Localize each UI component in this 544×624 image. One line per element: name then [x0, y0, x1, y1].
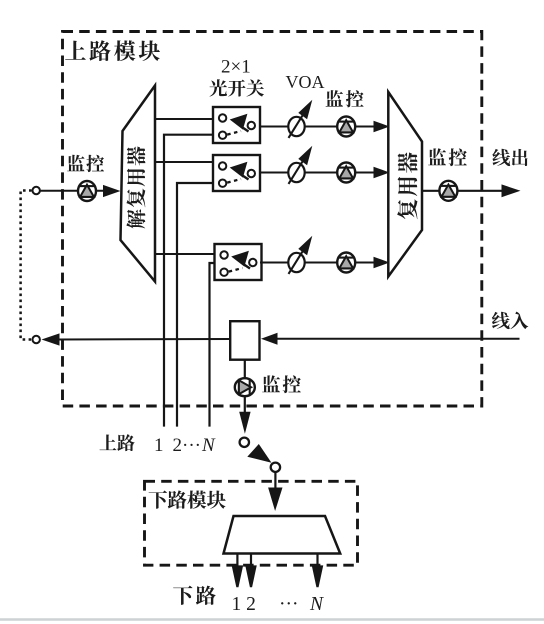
arrow into drop demux: [268, 488, 282, 512]
label 线入: [492, 312, 528, 329]
arrow into multiplexer row 3: [374, 257, 390, 269]
svg-text:2×1: 2×1: [221, 57, 251, 78]
drop module dashed border 下路模块: [145, 481, 358, 565]
optical switch S3 (2x1): [215, 244, 262, 280]
svg-text:N: N: [201, 435, 216, 456]
wire: tap box to left arrow: [59, 338, 230, 341]
arrow into demultiplexer: [103, 185, 121, 197]
optical switch S1 (2x1): [213, 107, 260, 143]
bottom page rule: [0, 618, 544, 621]
drop output arrow 2: [247, 554, 256, 588]
optical switch S2 (2x1): [213, 155, 260, 191]
svg-text:···: ···: [182, 435, 201, 456]
wire: demux out chN to switch3: [155, 253, 215, 255]
node: lower loop connector circle: [33, 336, 40, 343]
label 上路: [100, 434, 135, 451]
arrow into tap box: [261, 333, 278, 345]
tap box (drop coupler): [230, 321, 259, 360]
wire: line in from right: [275, 338, 520, 340]
arrow down to connector: [239, 412, 250, 434]
label 复用器 (vertical): [397, 152, 417, 219]
drop demultiplexer trapezoid: [224, 516, 341, 554]
monitor tap row 2: [337, 163, 355, 183]
wire: connector 2 down into drop demux: [274, 472, 276, 490]
svg-text:2: 2: [173, 435, 183, 456]
wire: switch2 output to multiplexer: [260, 172, 376, 174]
arrow line out: [502, 184, 521, 197]
VOA attenuator A1: [288, 100, 312, 138]
arrow: patch between connectors: [247, 444, 271, 463]
svg-text:···: ···: [279, 594, 298, 615]
label 监控 row1: [326, 90, 364, 107]
arrow to loop circle: [42, 333, 60, 345]
monitor tap row 3: [337, 253, 355, 273]
wire: input to demultiplexer: [41, 190, 106, 192]
wire: switch3 output to multiplexer: [260, 262, 376, 264]
node: upper loop connector circle: [33, 187, 40, 194]
add module dashed border 上路模块: [63, 32, 482, 407]
label 下路模块: [149, 490, 226, 508]
label 监控 line out: [428, 148, 467, 166]
wire: mux output line out: [422, 190, 504, 192]
monitor tap at line out: [439, 181, 457, 201]
label 下路: [173, 586, 216, 605]
wire: dotted loopback left: [21, 191, 32, 340]
drop output arrow 1: [233, 554, 242, 588]
wire: switch1 output to multiplexer: [260, 126, 376, 128]
VOA attenuator A3: [288, 236, 312, 274]
label 线出: [492, 149, 527, 166]
label 光开关: [209, 79, 263, 96]
svg-text:1 2: 1 2: [232, 594, 256, 615]
wire: demux out ch2 to switch2: [155, 161, 213, 163]
wire: add channel 2: [177, 183, 213, 427]
arrow into multiplexer row 1: [374, 121, 390, 133]
node: drop connector circle 2: [271, 463, 280, 472]
wire: demux out ch1 to switch1: [155, 118, 213, 120]
wire: add channel 1: [164, 135, 213, 427]
monitor tap drop: [235, 378, 255, 396]
label 上路模块: [65, 40, 160, 61]
VOA attenuator A2: [288, 146, 312, 184]
wire: tap box down to monitor: [244, 360, 246, 413]
label 解复用器 (vertical): [126, 146, 145, 228]
svg-text:N: N: [309, 594, 324, 615]
svg-text:1: 1: [154, 435, 164, 456]
node: drop connector circle 1: [240, 438, 249, 447]
monitor tap M1 at demux input: [78, 181, 96, 201]
wire: add channel N: [210, 263, 215, 427]
label 监控 drop: [262, 375, 301, 393]
drop output arrow N: [313, 554, 322, 588]
arrow into multiplexer row 2: [374, 167, 390, 179]
monitor tap row 1: [337, 117, 355, 137]
label 监控 M1: [67, 155, 104, 172]
demultiplexer 解复用器: [121, 86, 156, 282]
svg-text:VOA: VOA: [286, 72, 325, 92]
multiplexer 复用器: [388, 92, 422, 277]
